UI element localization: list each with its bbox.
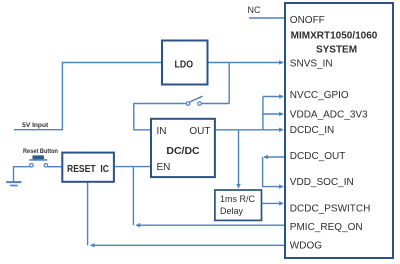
svg-text:NVCC_GPIO: NVCC_GPIO bbox=[290, 90, 349, 101]
svg-text:DCDC_PSWITCH: DCDC_PSWITCH bbox=[290, 203, 371, 214]
svg-text:OUT: OUT bbox=[189, 126, 210, 137]
svg-text:Reset Button: Reset Button bbox=[23, 148, 58, 155]
svg-text:PMIC_REQ_ON: PMIC_REQ_ON bbox=[290, 222, 363, 233]
svg-text:DC/DC: DC/DC bbox=[166, 145, 200, 157]
svg-text:SYSTEM: SYSTEM bbox=[316, 45, 357, 56]
svg-text:VDDA_ADC_3V3: VDDA_ADC_3V3 bbox=[290, 109, 368, 120]
svg-text:DCDC_IN: DCDC_IN bbox=[290, 125, 334, 136]
svg-text:Delay: Delay bbox=[220, 206, 244, 216]
svg-text:IN: IN bbox=[157, 126, 167, 137]
svg-text:EN: EN bbox=[157, 162, 171, 173]
svg-text:RESET IC: RESET IC bbox=[67, 164, 109, 175]
svg-text:1ms R/C: 1ms R/C bbox=[220, 194, 256, 204]
svg-text:VDD_SOC_IN: VDD_SOC_IN bbox=[290, 177, 354, 188]
svg-text:LDO: LDO bbox=[175, 58, 194, 70]
svg-text:5V Input: 5V Input bbox=[22, 122, 49, 129]
svg-text:SNVS_IN: SNVS_IN bbox=[290, 58, 333, 69]
svg-text:ONOFF: ONOFF bbox=[290, 15, 325, 26]
svg-text:DCDC_OUT: DCDC_OUT bbox=[290, 151, 346, 162]
svg-text:WDOG: WDOG bbox=[290, 241, 322, 252]
svg-text:MIMXRT1050/1060: MIMXRT1050/1060 bbox=[291, 31, 378, 42]
svg-text:NC: NC bbox=[248, 5, 261, 15]
